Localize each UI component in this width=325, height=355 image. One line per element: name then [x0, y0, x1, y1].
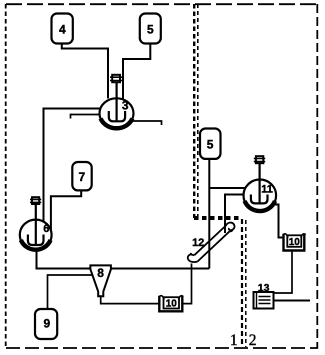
svg-text:10: 10	[166, 299, 178, 310]
conveyor 12 lower hook	[188, 253, 198, 262]
svg-text:5: 5	[207, 137, 214, 151]
svg-text:2: 2	[249, 332, 257, 349]
outer border top	[6, 3, 317, 5]
tank 5 left	[140, 14, 161, 44]
wire tank5-right to reactor11 upper inlet	[209, 187, 245, 189]
shaft reactor6	[35, 204, 37, 244]
svg-text:4: 4	[59, 22, 66, 36]
motor reactor11	[256, 156, 263, 163]
reactor 3 vessel	[100, 98, 134, 128]
region 2 boundary vertical upper	[197, 4, 199, 219]
region 1 boundary horizontal	[194, 216, 241, 220]
svg-text:13: 13	[258, 282, 270, 294]
conveyor 12 tube	[194, 226, 229, 262]
impeller reactor3	[109, 111, 125, 121]
outer border right	[316, 4, 318, 349]
wire tank4 to reactor3	[62, 44, 108, 99]
wire reactor3 right stub	[133, 121, 162, 125]
wire pump10b to filter13	[274, 251, 293, 293]
wire conveyor12 top to reactor11 lower inlet	[225, 195, 244, 234]
wire tank5-right drop	[208, 159, 210, 269]
svg-text:3: 3	[122, 98, 129, 112]
wire reactor6 outlet to funnel8	[37, 250, 91, 269]
filter 13	[254, 292, 274, 309]
svg-text:11: 11	[261, 183, 273, 195]
wire funnel8 overflow to tank9	[48, 275, 93, 309]
svg-text:10: 10	[289, 237, 301, 248]
wire funnel8 bottom to pump10a	[101, 296, 160, 304]
motor reactor3	[112, 75, 120, 82]
wire filter13 outlet	[274, 300, 311, 302]
svg-text:1: 1	[230, 332, 238, 349]
wire tank7 to reactor6	[51, 191, 81, 230]
pump 10a cup	[159, 296, 182, 312]
reactor 11 vessel	[243, 180, 276, 212]
region 2 boundary vertical lower	[245, 220, 247, 347]
tank 5 right	[200, 129, 221, 159]
wire tank5-left to reactor3	[123, 44, 150, 99]
pump 10b cup	[284, 234, 305, 251]
svg-text:6: 6	[43, 223, 49, 235]
wire reactor11 outlet to pump10b	[272, 205, 285, 238]
wire pump10a to conveyor12 lower end	[182, 264, 191, 304]
motor reactor6	[32, 197, 39, 204]
shaft reactor3	[115, 83, 117, 121]
svg-text:8: 8	[97, 266, 104, 280]
outer border bottom	[6, 347, 318, 349]
wire reactor3 left stub	[71, 115, 101, 119]
impeller reactor6	[28, 235, 44, 246]
region 1 boundary vertical lower	[241, 219, 243, 347]
outer border left	[5, 4, 7, 349]
shaft reactor11	[259, 164, 261, 203]
svg-text:7: 7	[79, 170, 86, 184]
svg-text:5: 5	[147, 22, 154, 36]
tank 7	[72, 162, 91, 190]
reactor 6 vessel	[20, 220, 52, 251]
funnel 8	[90, 265, 111, 296]
wire funnel8 right to tank5-right drop	[111, 268, 210, 270]
region 1 boundary vertical upper	[193, 4, 195, 218]
svg-text:9: 9	[44, 317, 51, 331]
tank 9	[35, 309, 57, 339]
wire reactor3 left inlet from reactor6 riser	[44, 109, 100, 223]
tank 4	[52, 14, 73, 44]
impeller reactor11	[251, 195, 268, 204]
conveyor 12 upper hook	[226, 223, 235, 232]
svg-text:12: 12	[192, 237, 204, 249]
